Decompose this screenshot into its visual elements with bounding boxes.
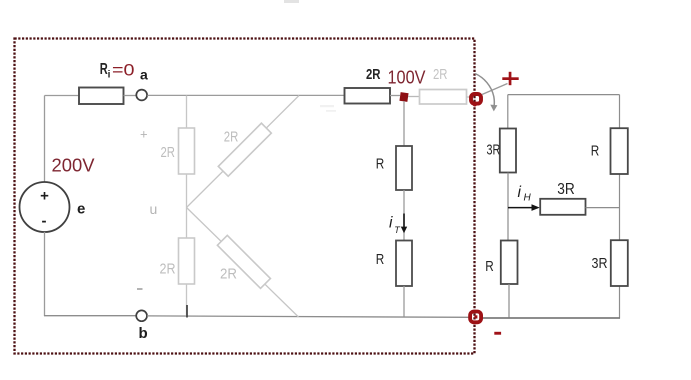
svg-text:2R: 2R xyxy=(220,266,237,283)
wire: right network bottom rail xyxy=(481,317,620,319)
svg-text:R: R xyxy=(376,251,385,268)
ghost resistor 2R upper diagonal xyxy=(218,123,271,176)
wire: bottom rail (node b to node B) xyxy=(147,316,469,317)
resistor R (lower, 100V branch) xyxy=(396,241,412,287)
wire: bottom rail (left of node b) xyxy=(44,315,136,317)
ghost wire: lower diagonal xyxy=(187,208,299,318)
svg-text:200V: 200V xyxy=(52,155,96,176)
wire xyxy=(403,190,405,241)
ghost resistor 2R lower (middle branch) xyxy=(179,238,195,284)
wire: right network left vertical xyxy=(507,95,509,129)
resistor 3R (upper left of bridge) xyxy=(500,129,516,173)
svg-text:3R: 3R xyxy=(592,255,608,272)
arrow iH (current, rightward) xyxy=(508,207,533,209)
turning arrow (grey) xyxy=(475,74,494,108)
svg-text:R: R xyxy=(591,143,600,160)
lead: node A to plus terminal xyxy=(482,84,508,95)
svg-text:2R: 2R xyxy=(433,66,448,83)
wire xyxy=(403,286,405,317)
resistor Ri xyxy=(79,88,124,105)
wire: right network right vertical xyxy=(619,95,621,319)
wire xyxy=(508,284,510,318)
svg-text:2R: 2R xyxy=(224,129,239,146)
faint erased marks xyxy=(320,105,336,112)
node b (terminal circle) xyxy=(136,310,147,321)
plus annotation (maroon) xyxy=(502,77,518,80)
svg-text:2R: 2R xyxy=(160,261,176,278)
svg-text:a: a xyxy=(140,67,148,83)
wire: left vertical lower xyxy=(44,232,46,316)
svg-text:u: u xyxy=(150,201,158,217)
ghost resistor 2R upper (middle branch) xyxy=(179,128,195,174)
svg-text:i: i xyxy=(389,215,393,232)
wire: left vertical upper xyxy=(44,96,46,183)
wire: top rail to Ri xyxy=(45,95,80,97)
svg-text:R: R xyxy=(485,258,494,275)
resistor R (lower left of bridge) xyxy=(501,241,518,285)
ghost wire: middle branch vertical xyxy=(186,96,188,317)
svg-text:b: b xyxy=(139,325,148,342)
svg-text:i: i xyxy=(518,184,522,201)
wire: Ri to node a xyxy=(124,95,137,97)
wire: 100V node to ghost 2R xyxy=(408,96,420,98)
ghost resistor 2R (series, right) xyxy=(420,90,467,105)
wire: bridge arm to right vertical xyxy=(586,207,620,209)
ghost wire: upper diagonal xyxy=(187,96,300,208)
node a (terminal circle) xyxy=(136,90,147,101)
svg-text:3R: 3R xyxy=(487,141,501,158)
svg-text:H: H xyxy=(524,193,532,204)
wire: 2R to 100V node xyxy=(390,95,400,97)
svg-text:+: + xyxy=(140,127,148,142)
ghost polarity - for u xyxy=(137,288,143,290)
wire: vertical branch below 100V node xyxy=(403,101,405,146)
ghost resistor 2R lower diagonal xyxy=(217,235,270,288)
svg-text:R: R xyxy=(376,156,385,173)
svg-text:3R: 3R xyxy=(557,181,575,198)
wire: ghost 2R to node A xyxy=(467,96,471,98)
wire: right network top rail xyxy=(508,94,620,96)
svg-text:+: + xyxy=(40,188,49,205)
node A marker (maroon scribble ring) xyxy=(471,94,481,104)
svg-text:=0: =0 xyxy=(112,62,135,80)
resistor R (upper, 100V branch) xyxy=(396,146,412,190)
svg-text:e: e xyxy=(77,201,85,218)
wire: top rail a to 2R xyxy=(147,94,344,96)
node: 100V terminal (filled maroon square) xyxy=(399,92,408,102)
resistor 3R (lower right of bridge) xyxy=(611,240,628,286)
boundary box (dotted maroon) xyxy=(15,39,475,354)
svg-text:100V: 100V xyxy=(388,67,427,88)
svg-text:-: - xyxy=(42,213,47,230)
node B marker (maroon scribble ring) xyxy=(470,312,481,323)
resistor R (upper right of bridge) xyxy=(611,128,628,174)
wire xyxy=(507,173,509,241)
resistor 2R (series, top) xyxy=(345,88,391,104)
resistor 3R (horizontal bridge arm) xyxy=(540,199,585,215)
scan smudge top center xyxy=(284,0,299,3)
svg-text:2R: 2R xyxy=(161,144,176,161)
voltage source e xyxy=(20,182,70,232)
minus annotation (maroon) xyxy=(494,332,501,335)
svg-text:2R: 2R xyxy=(366,66,381,83)
junction tick at middle branch bottom xyxy=(186,305,188,318)
arrow iT (current, downward) xyxy=(403,214,405,228)
svg-text:i: i xyxy=(108,70,111,81)
